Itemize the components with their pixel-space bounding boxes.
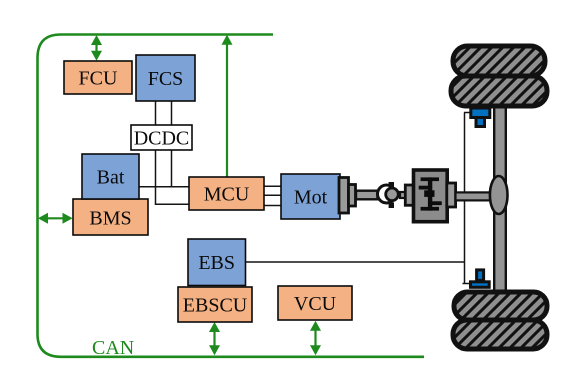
drive shaft thin xyxy=(356,191,378,200)
wheel bottom tire 1 xyxy=(454,292,547,320)
svg-text:Mot: Mot xyxy=(294,187,328,209)
svg-text:BMS: BMS xyxy=(89,208,131,230)
wire VCU-CAN arrow xyxy=(310,321,321,356)
box EBS xyxy=(188,239,246,286)
gearbox right flange xyxy=(447,183,456,207)
wire MCU-Mot phase1 xyxy=(264,185,281,187)
wire DCDC down-right xyxy=(171,150,173,187)
wire FCS-DCDC right xyxy=(171,101,173,125)
motor flange 2 xyxy=(349,185,356,207)
svg-text:EBS: EBS xyxy=(198,252,235,274)
box Bat xyxy=(82,154,139,199)
wire FCU-CAN arrow xyxy=(91,35,102,61)
wire BMS-CAN arrow xyxy=(38,213,73,224)
wire FCS-DCDC left xyxy=(155,101,157,125)
box BMS xyxy=(73,199,148,235)
wire EBS-brakes horizontal xyxy=(246,261,465,263)
coupling ball xyxy=(386,188,399,201)
svg-text:CAN: CAN xyxy=(92,337,134,359)
coupling yoke ring xyxy=(378,185,396,203)
wire MCU-Mot phase3 xyxy=(264,205,281,207)
svg-text:Bat: Bat xyxy=(97,167,125,189)
svg-text:EBSCU: EBSCU xyxy=(183,295,248,317)
wire MCU-CAN arrow xyxy=(222,35,233,177)
svg-text:MCU: MCU xyxy=(204,184,250,206)
wire MCU-Mot phase2 xyxy=(264,194,281,196)
gearbox input stub xyxy=(400,192,406,198)
wheel top tire 2 xyxy=(451,76,547,106)
svg-text:FCS: FCS xyxy=(148,68,184,90)
wire EBSCU-CAN arrow xyxy=(209,322,220,355)
differential xyxy=(490,176,508,214)
box MCU xyxy=(189,177,264,210)
svg-text:VCU: VCU xyxy=(294,293,337,315)
axle shaft xyxy=(494,102,506,294)
CAN bus line xyxy=(38,35,425,357)
wheel top tire 1 xyxy=(453,46,545,76)
axle input shaft xyxy=(456,192,493,200)
coupling tab bottom xyxy=(389,202,394,208)
motor flange 1 xyxy=(339,178,349,214)
gearbox body xyxy=(414,170,448,222)
box VCU xyxy=(278,286,352,320)
box EBSCU xyxy=(178,287,252,322)
svg-text:FCU: FCU xyxy=(79,68,118,90)
box FCU xyxy=(64,61,132,94)
brake bottom xyxy=(471,270,490,287)
wire brake vertical xyxy=(464,113,466,284)
box DCDC xyxy=(131,125,192,150)
wire to bottom brake xyxy=(463,283,471,285)
box Mot xyxy=(281,174,340,219)
box FCS xyxy=(136,55,195,101)
coupling tab top xyxy=(389,182,394,188)
gearbox symbol xyxy=(419,177,442,210)
wire Bat-MCU xyxy=(139,186,189,188)
wire DCDC-MCU xyxy=(155,203,189,205)
wheel bottom tire 2 xyxy=(453,320,547,349)
wire to top brake xyxy=(464,112,471,114)
svg-text:DCDC: DCDC xyxy=(134,128,190,150)
gearbox left flange xyxy=(405,185,414,205)
wire DCDC down-left xyxy=(155,150,157,204)
brake top xyxy=(471,108,490,127)
